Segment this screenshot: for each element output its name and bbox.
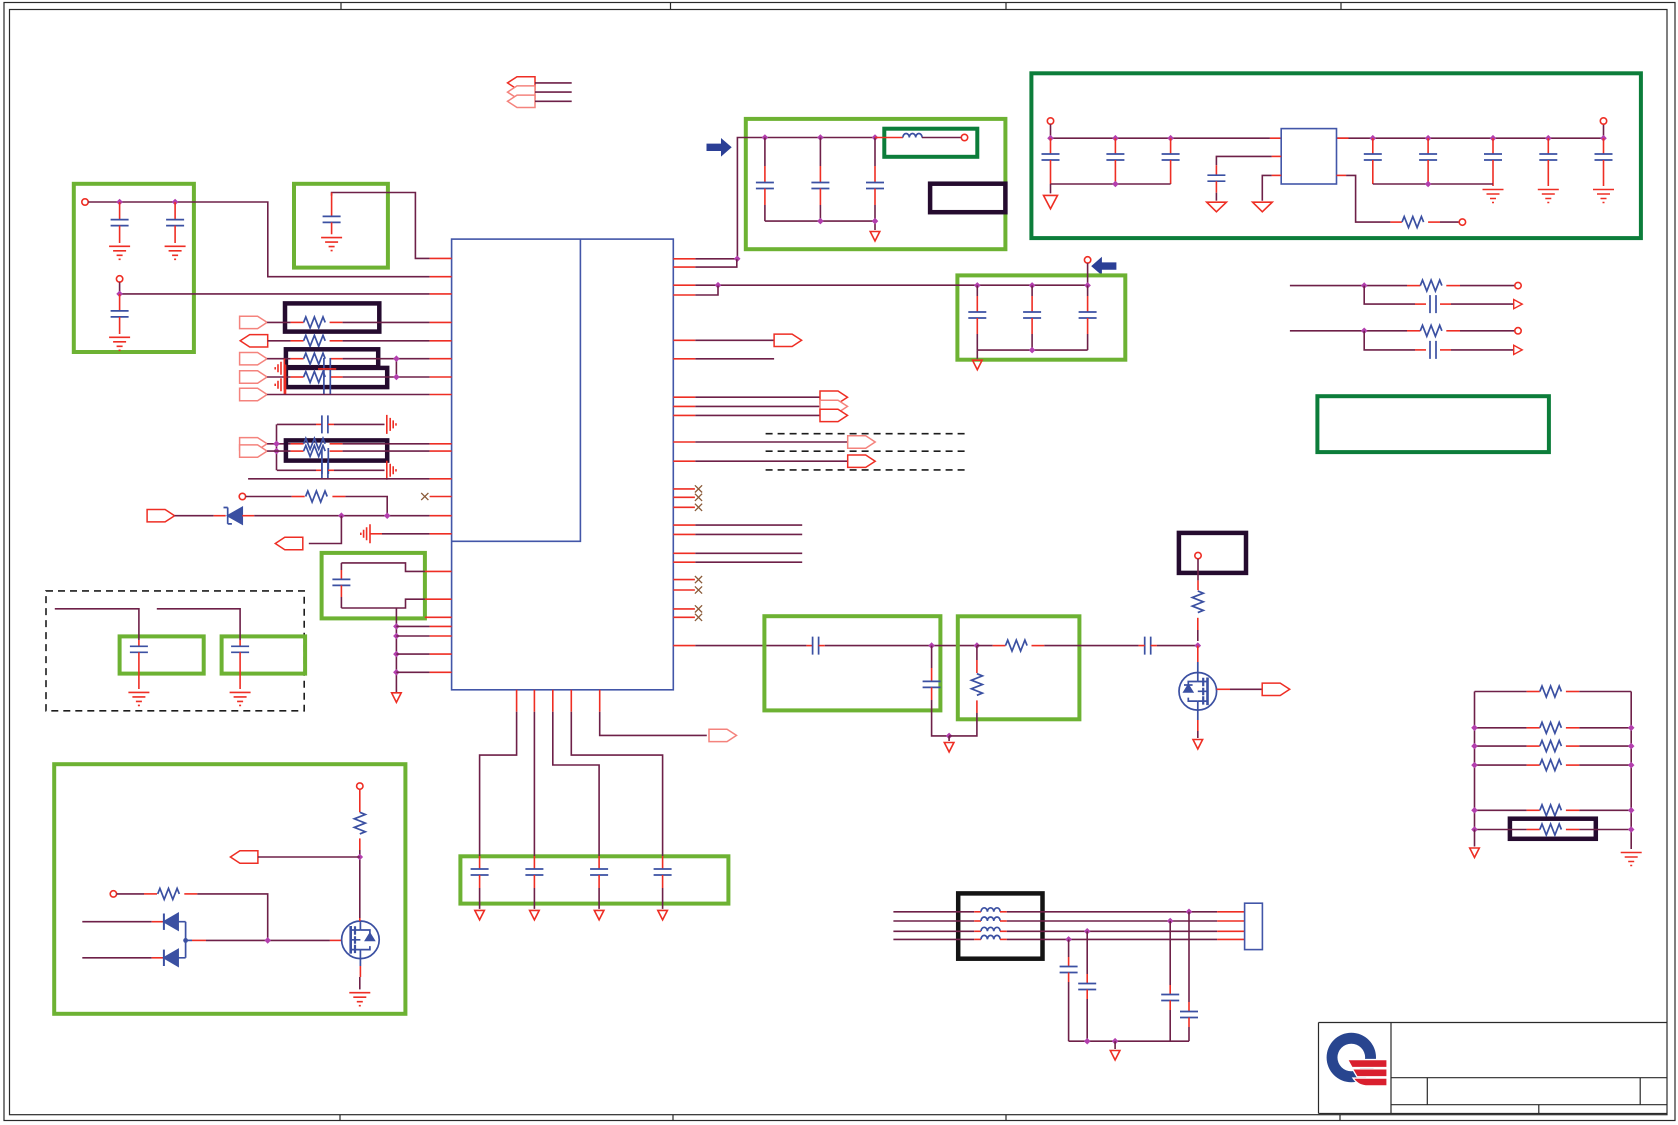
power down arrow [1253, 202, 1273, 212]
wire bottom bus [765, 221, 875, 230]
capacitor C31 [533, 852, 535, 856]
terminal circle [1047, 118, 1053, 124]
terminal circle [1515, 282, 1521, 288]
resistor R12 shunt [976, 646, 978, 660]
capacitor C21 [1415, 349, 1426, 351]
node junction [273, 448, 280, 455]
wire return bus right [1373, 183, 1493, 185]
connector J1 [1245, 903, 1263, 949]
row 2 [1475, 727, 1632, 729]
wire [1440, 221, 1459, 223]
port D right-pointing [240, 371, 268, 383]
wire row C to IC [343, 359, 430, 377]
resistor R10 [292, 496, 305, 498]
node junction [393, 623, 400, 630]
node junction [734, 255, 741, 262]
row 4 wires [893, 938, 974, 940]
power down arrow [973, 360, 983, 370]
diode D2 [82, 921, 151, 923]
dark purple box R6 [286, 349, 378, 367]
wire pin4 route [571, 712, 662, 852]
capacitor C35 [1086, 931, 1088, 974]
capacitor C28 shunt [931, 646, 933, 668]
pin wires triple [673, 397, 695, 415]
terminal circle [961, 134, 967, 140]
node junction [273, 441, 280, 448]
rails [1475, 692, 1632, 850]
wire [120, 282, 430, 294]
ground [1483, 190, 1504, 203]
bottom bus [1069, 1040, 1189, 1042]
capacitor C36 [1169, 921, 1171, 985]
cap row F wire [277, 423, 316, 425]
wire row2 [1290, 330, 1407, 332]
node junction [1545, 135, 1552, 142]
capacitor C15 [1547, 138, 1549, 154]
wire return bus left [1051, 184, 1171, 193]
resistor R9 [291, 450, 304, 452]
node junction [393, 374, 400, 381]
green box highlight [54, 764, 405, 1014]
capacitor C33 [662, 852, 664, 856]
port right-pointing open [1262, 683, 1290, 695]
wire row A [267, 321, 291, 323]
pin wire 2 [673, 266, 695, 268]
row 4 [1475, 764, 1632, 766]
capacitor C27 series [806, 645, 812, 647]
green box highlight cap bank [460, 856, 728, 903]
capacitor C22 [316, 423, 322, 425]
wire row1 [1290, 285, 1407, 287]
node junction [715, 282, 722, 289]
wire pin5 to port [600, 712, 707, 736]
port left-pointing [230, 851, 258, 863]
capacitor C29 series [1145, 637, 1151, 655]
source stub down [1197, 710, 1199, 720]
capacitor C8 [1050, 138, 1052, 154]
pin row 617.3 [425, 616, 452, 618]
sideways ground [275, 375, 284, 394]
resistor R5 [291, 340, 304, 342]
resistor R16 [1527, 691, 1540, 693]
node junction [1195, 642, 1202, 649]
port M left-pointing [275, 537, 303, 549]
node junction [1112, 181, 1119, 188]
dark purple box R4 [285, 303, 379, 331]
node junction [974, 642, 981, 649]
power down arrow [1114, 1041, 1116, 1049]
dark purple box (bias label) [1179, 533, 1246, 573]
vertical caps between rows [324, 358, 330, 394]
sideways ground (right attach) [387, 461, 396, 480]
red pin stub to IC [430, 276, 452, 278]
green box highlight [322, 553, 425, 619]
wire regulator pin2 to cap [1272, 155, 1282, 157]
node junction [762, 134, 769, 141]
ground [128, 692, 149, 705]
small port triangle [1514, 345, 1523, 354]
wire row L [242, 515, 254, 517]
wire loop bottom [341, 599, 425, 608]
green box highlight [957, 275, 1125, 359]
ground [165, 246, 186, 259]
node junction [116, 199, 123, 206]
port C right-pointing [240, 353, 268, 365]
node junction [928, 642, 935, 649]
terminal circle [1600, 118, 1606, 124]
dark purple box (label) [930, 184, 1005, 213]
capacitor C7 [874, 138, 876, 167]
terminal circle [1515, 328, 1521, 334]
wire row D [267, 376, 291, 378]
right rail ground [1621, 853, 1642, 866]
node junction [338, 512, 345, 519]
wire row E to IC [267, 394, 430, 396]
row 1 wires [893, 911, 974, 913]
pin stub wires [673, 525, 695, 562]
pin wire 3 (bus to decoupling) [673, 284, 695, 286]
wire row2 cap branch [1364, 331, 1415, 350]
capacitor C24 on left leg [340, 563, 342, 570]
red stub [1197, 618, 1199, 630]
resistor R14 [354, 812, 365, 834]
ground [109, 337, 130, 350]
port E right-pointing [240, 388, 268, 400]
ground [321, 238, 342, 251]
node junction [872, 218, 879, 225]
no-connect pins x3 [673, 489, 695, 507]
port triple right-pointing [820, 391, 848, 403]
green box B [222, 636, 306, 673]
power down arrows [475, 910, 485, 920]
no-connect pins x2 [673, 609, 695, 617]
green box highlight (matching) [958, 616, 1080, 719]
node junction [1047, 135, 1054, 142]
drain stub top [359, 918, 361, 921]
wire loop top [341, 563, 425, 572]
wire [535, 83, 572, 101]
small port triangle [1514, 300, 1523, 309]
terminal circle [1459, 219, 1465, 225]
transistor Q2 [342, 921, 380, 959]
node junction [872, 134, 879, 141]
red vertical stub line [285, 365, 287, 395]
node junction [1084, 282, 1091, 289]
wire row D to IC [343, 376, 430, 378]
regulator U2 [1281, 129, 1336, 184]
row 3 wires [893, 930, 974, 932]
wire [825, 645, 977, 647]
wires to IC [396, 626, 429, 672]
power down arrow [392, 693, 402, 703]
node junction [384, 512, 391, 519]
ground [230, 692, 251, 705]
resistor R20 [1527, 809, 1540, 811]
port B left-pointing [240, 335, 268, 347]
wire feedback to resistor [1337, 174, 1347, 176]
row 1 [1475, 691, 1632, 693]
node junction [1361, 328, 1368, 335]
node junction [393, 633, 400, 640]
wire pin1 route [480, 712, 517, 852]
capacitor C37 [1188, 912, 1190, 1002]
wire [1460, 330, 1515, 332]
wire [332, 193, 430, 259]
wire [334, 469, 385, 471]
terminal circle [82, 199, 88, 205]
port A right-pointing [240, 316, 268, 328]
dark purple box R21 [1510, 819, 1596, 839]
resistor R11 series [977, 645, 993, 647]
dark green box (L1) [884, 129, 977, 157]
node junction [1425, 181, 1432, 188]
resistor R15 [144, 893, 157, 895]
vertical cap plates G cluster [322, 448, 328, 474]
bottom pin stubs [517, 690, 600, 712]
wire row B to IC [343, 340, 430, 342]
wire port to node [258, 856, 360, 858]
capacitor C17 [976, 285, 978, 296]
green box highlight (series cap) [764, 616, 940, 710]
wire [157, 609, 240, 640]
wire bus from IC pins up into box [737, 138, 875, 259]
node junction row1 [1186, 909, 1193, 916]
no-connect X [421, 493, 428, 500]
wire row K to L [345, 497, 387, 516]
wire row A to IC [343, 321, 430, 323]
capacitor C1 [119, 202, 121, 220]
capacitor C32 [598, 852, 600, 856]
row 3 [1475, 745, 1632, 747]
diode common rail [178, 922, 186, 958]
power down arrow [948, 736, 950, 741]
node junction [1112, 135, 1119, 142]
wire vertical rail [395, 608, 397, 693]
wire row H [267, 450, 291, 452]
wire L branch to port [309, 516, 342, 544]
wire from circle [1197, 559, 1199, 581]
pin wire 4 [673, 294, 695, 296]
sideways ground row 533.8 [361, 524, 370, 543]
blue arrow [707, 138, 732, 157]
dashed separator lines [766, 434, 968, 470]
node junction [172, 199, 179, 206]
capacitor C14 [1492, 138, 1494, 154]
blue arrow left [1091, 257, 1116, 276]
node junction [946, 733, 953, 740]
green box highlight C4 [294, 184, 388, 268]
dark purple box R7 [286, 368, 387, 387]
capacitor C11 [1215, 165, 1217, 175]
pin wire 6 stub [673, 358, 695, 360]
wire pin3 route [553, 712, 599, 852]
row 2 wires [893, 920, 974, 922]
red stub regulator in [1270, 137, 1349, 139]
resistor R2 [1407, 285, 1420, 287]
wire input bus [1051, 124, 1604, 138]
gate stub [330, 939, 341, 941]
ground [109, 246, 130, 259]
wire row H to IC [343, 450, 430, 452]
diode D3 [82, 957, 151, 959]
wire ground to IC [370, 533, 382, 535]
resistor R13 pull-up [1192, 591, 1203, 613]
port L right-pointing [147, 510, 175, 522]
wire to gate node [197, 894, 267, 941]
node junction [1490, 135, 1497, 142]
left rail down arrow [1474, 830, 1476, 847]
capacitor C23 [316, 469, 322, 471]
wire [117, 893, 144, 895]
ground [1538, 190, 1559, 203]
red pin stub to IC [430, 257, 452, 259]
source stub down to ground [359, 959, 361, 966]
wire [1157, 645, 1198, 647]
wire [1044, 645, 1138, 647]
node junction [393, 651, 400, 658]
wire row K [246, 496, 292, 498]
red pin stub to IC [430, 293, 452, 295]
sideways ground [275, 359, 284, 378]
capacitor C18 [1031, 285, 1033, 296]
capacitor C25 [138, 640, 140, 646]
resistor R6 [291, 358, 304, 360]
node junction row4 [1065, 936, 1072, 943]
capacitor C16 [1603, 138, 1605, 154]
ground [349, 993, 370, 1006]
wire row B [268, 340, 291, 342]
terminal circle [1195, 552, 1201, 558]
capacitor C19 [1087, 285, 1089, 296]
terminal circle lower [116, 276, 122, 282]
wire [1451, 349, 1514, 351]
power down arrow [1193, 740, 1203, 750]
capacitor C30 [479, 852, 481, 856]
node junction [817, 218, 824, 225]
node junction [357, 854, 364, 861]
resistor R8 [291, 443, 304, 445]
resistor R19 [1527, 764, 1540, 766]
red stub [359, 838, 361, 850]
node junction row2 [1167, 918, 1174, 925]
MOSFET Q1 drain stub [1197, 646, 1199, 662]
wire row J [248, 478, 430, 480]
node junction row3 [1084, 928, 1091, 935]
node junction [1112, 1038, 1119, 1045]
power down arrow [870, 232, 880, 242]
node junction [1600, 135, 1607, 142]
capacitor C6 [819, 138, 821, 167]
capacitor C10 [1170, 138, 1172, 154]
terminal circle K [239, 493, 245, 499]
no-connect stub K [430, 496, 452, 498]
pin wire + port [673, 460, 695, 462]
dark green box highlight [1031, 73, 1641, 238]
wire [55, 609, 139, 640]
node junction [116, 291, 123, 298]
resistor R4 [291, 321, 304, 323]
black box T1 [958, 893, 1042, 958]
row 5 [1475, 809, 1632, 811]
node junction [1370, 135, 1377, 142]
pin wire to top box [673, 258, 695, 260]
pin wire 5 + port [673, 339, 695, 341]
dashed box [46, 591, 304, 711]
sideways ground (right attach) [387, 415, 396, 434]
wire [1460, 285, 1515, 287]
inductor L1 [875, 137, 903, 139]
port right-pointing [709, 729, 737, 741]
pin wire bus [673, 645, 695, 647]
node junction [1361, 282, 1368, 289]
red stub [359, 789, 361, 812]
node junction [393, 355, 400, 362]
wire row G [267, 424, 291, 470]
wire pin2 route [533, 712, 535, 852]
capacitor C5 [764, 138, 766, 167]
capacitor C13 [1427, 138, 1429, 154]
node junction [974, 282, 981, 289]
node junction [1029, 282, 1036, 289]
capacitor C2 [174, 202, 176, 220]
node junction [817, 134, 824, 141]
node junction [1425, 135, 1432, 142]
resistor R21 [1527, 829, 1540, 831]
power down arrow [1207, 202, 1227, 212]
green box highlight [746, 119, 1006, 249]
wire [1451, 303, 1514, 305]
node junction [393, 669, 400, 676]
red stub [186, 939, 192, 941]
wire regulator gnd pin [1272, 174, 1282, 176]
terminal circle [357, 783, 363, 789]
resistor R3 [1407, 330, 1420, 332]
pin wire + port (pink) [673, 441, 695, 443]
power down arrow [1044, 195, 1058, 208]
capacitor C9 [1114, 138, 1116, 154]
resistor R7 [291, 376, 304, 378]
wire row G to IC [343, 443, 430, 445]
wire top bus [88, 202, 429, 277]
terminal circle R15 [110, 891, 116, 897]
capacitor C4 [331, 193, 333, 217]
resistor R17 [1527, 727, 1540, 729]
wire bus from IC pin [716, 263, 1088, 285]
capacitor C34 [1068, 939, 1070, 957]
row 6 [1475, 829, 1632, 831]
resistor R18 [1527, 745, 1540, 747]
wire row C [267, 358, 291, 360]
capacitor C26 [239, 640, 241, 646]
port right-pointing [774, 334, 802, 346]
gate stub to port [1217, 688, 1230, 690]
node junction [264, 937, 271, 944]
Qualcomm logo [1327, 1033, 1387, 1085]
port triple left-pointing [508, 77, 536, 89]
dark purple box R8/R9 [286, 440, 387, 460]
wire to zener [175, 515, 214, 517]
wire bottom bus [977, 350, 1087, 359]
resistor R1 [1390, 221, 1402, 223]
capacitor C20 [1415, 303, 1426, 305]
capacitor C3 [119, 294, 121, 311]
terminal circle [1084, 257, 1090, 263]
green box A [120, 636, 204, 673]
capacitor C12 [1372, 138, 1374, 154]
green box highlight C1 C2 C3 [74, 184, 194, 352]
node junction [1029, 347, 1036, 354]
no-connect pins x2 [673, 580, 695, 590]
